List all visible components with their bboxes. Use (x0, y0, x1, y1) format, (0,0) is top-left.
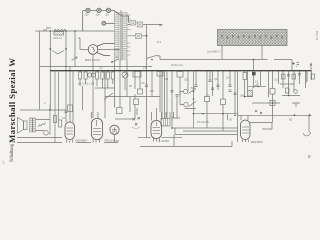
svg-text:50: 50 (129, 84, 132, 88)
svg-text:Marschall Spezial W: Marschall Spezial W (7, 58, 17, 143)
svg-text:0,1: 0,1 (226, 76, 230, 80)
svg-text:REN904: REN904 (76, 139, 88, 143)
svg-text:0,5 qF 0,5: 0,5 qF 0,5 (197, 120, 209, 124)
svg-text:0,1: 0,1 (157, 40, 161, 44)
svg-text:0,1: 0,1 (165, 77, 169, 81)
svg-text:Ua=250 V: Ua=250 V (207, 50, 220, 54)
svg-text:500: 500 (191, 86, 196, 90)
svg-text:0,5: 0,5 (184, 78, 188, 82)
svg-text:14: 14 (2, 160, 6, 164)
svg-text:0,1 0,1 0,1 0,1: 0,1 0,1 0,1 0,1 (78, 81, 95, 85)
svg-text:EBC3 EF9: EBC3 EF9 (85, 58, 100, 62)
svg-text:2M: 2M (240, 94, 244, 98)
svg-text:110: 110 (105, 13, 109, 16)
svg-text:C 30/30: C 30/30 (159, 139, 170, 143)
svg-text:0,1: 0,1 (62, 116, 66, 120)
svg-text:0,5: 0,5 (150, 89, 154, 93)
svg-text:0,3: 0,3 (206, 94, 210, 98)
svg-text:Ant: Ant (46, 26, 51, 30)
svg-text:50: 50 (289, 118, 293, 122)
svg-text:Wellensch.: Wellensch. (171, 63, 184, 67)
svg-text:4: 4 (44, 101, 46, 105)
svg-text:220: 220 (85, 13, 90, 16)
svg-text:M 1158: M 1158 (315, 30, 319, 40)
svg-text:Schaltung: Schaltung (10, 143, 15, 162)
svg-text:0,1: 0,1 (255, 79, 259, 83)
svg-text:E: E (307, 154, 311, 159)
svg-text:0,5: 0,5 (99, 66, 103, 70)
svg-text:50: 50 (229, 118, 232, 122)
svg-text:0,2: 0,2 (274, 77, 278, 81)
svg-text:150: 150 (96, 13, 101, 16)
svg-text:RES164: RES164 (105, 139, 117, 143)
svg-text:100 cm: 100 cm (53, 36, 63, 40)
svg-text:50: 50 (116, 139, 119, 143)
svg-text:0,1: 0,1 (214, 77, 218, 81)
svg-text:1M: 1M (143, 65, 147, 69)
svg-text:0,5: 0,5 (141, 81, 145, 85)
svg-text:RGN354: RGN354 (251, 140, 263, 144)
